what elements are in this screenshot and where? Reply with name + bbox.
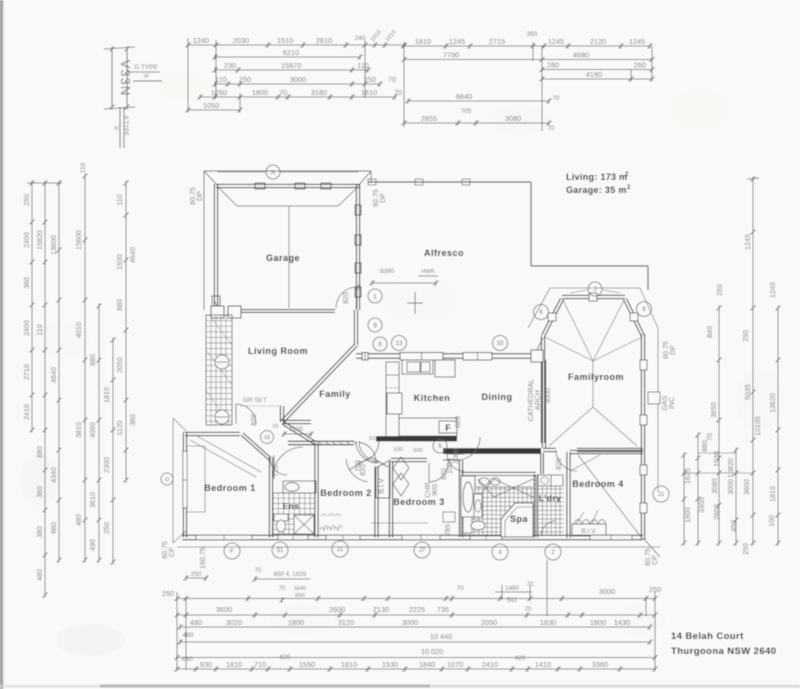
svg-text:1245: 1245 <box>769 282 777 298</box>
svg-text:230: 230 <box>224 61 236 70</box>
corridor thick wall east <box>443 449 541 454</box>
svg-text:13: 13 <box>396 341 403 347</box>
svg-text:70: 70 <box>394 88 402 97</box>
svg-text:2050: 2050 <box>481 618 497 627</box>
svg-text:10820: 10820 <box>727 458 735 478</box>
svg-text:700: 700 <box>354 460 362 472</box>
svg-text:J1: J1 <box>337 547 344 553</box>
svg-text:7790: 7790 <box>443 51 459 60</box>
south eave line <box>177 546 660 548</box>
bedroom1 robe diagonals <box>190 440 256 477</box>
svg-text:110: 110 <box>215 75 227 84</box>
svg-text:Dining: Dining <box>482 392 513 402</box>
svg-text:1240: 1240 <box>193 36 209 45</box>
svg-text:Ens: Ens <box>283 501 300 511</box>
svg-text:110: 110 <box>357 61 369 70</box>
ensuite vanity <box>283 481 316 493</box>
svg-text:3120: 3120 <box>338 618 354 627</box>
bathroom door arc <box>447 454 464 471</box>
svg-text:3650: 3650 <box>710 402 718 418</box>
svg-text:CP: CP <box>168 547 176 557</box>
svg-text:1600: 1600 <box>684 507 692 523</box>
svg-text:15: 15 <box>264 435 270 441</box>
svg-text:250: 250 <box>191 571 202 578</box>
circled tag 1 right of garage <box>368 289 382 303</box>
kitchen north wall with windows <box>356 357 531 359</box>
familyroom window piers <box>548 313 556 321</box>
svg-text:4640: 4640 <box>50 367 58 383</box>
svg-text:250: 250 <box>364 75 376 84</box>
scan noise patches <box>30 322 90 358</box>
svg-text:880: 880 <box>701 440 709 452</box>
svg-text:2600: 2600 <box>329 605 345 614</box>
svg-text:1810: 1810 <box>415 37 431 46</box>
svg-text:13620: 13620 <box>769 393 777 413</box>
shower cross marks <box>494 479 533 497</box>
svg-text:14 Belah Court: 14 Belah Court <box>671 631 744 642</box>
bottom dim row 4 10020 <box>180 641 650 643</box>
svg-text:2225: 2225 <box>409 605 425 614</box>
svg-text:542: 542 <box>507 598 518 604</box>
dining-bay connector pier <box>531 350 543 362</box>
svg-text:70: 70 <box>279 586 286 592</box>
svg-text:480: 480 <box>75 514 83 526</box>
svg-text:3600: 3600 <box>216 605 232 614</box>
svg-text:Kitchen: Kitchen <box>414 393 451 403</box>
svg-text:3080: 3080 <box>505 114 521 123</box>
svg-text:240: 240 <box>355 35 366 42</box>
spa platform <box>501 503 533 537</box>
svg-text:900: 900 <box>431 484 439 496</box>
BIV between bed2 bed3 <box>376 460 390 498</box>
bedroom4 ceiling diagonal <box>578 455 641 537</box>
bottom dim row 6 <box>177 668 655 670</box>
svg-text:2410: 2410 <box>482 660 498 669</box>
svg-text:2410: 2410 <box>23 404 31 420</box>
ensuite floor hatched <box>273 493 315 534</box>
living room east wall <box>353 310 355 345</box>
svg-text:Family: Family <box>319 389 351 399</box>
svg-text:3020: 3020 <box>226 618 242 627</box>
top dim row 5 <box>200 96 395 98</box>
svg-text:4340: 4340 <box>50 467 58 483</box>
bedroom3 leader line <box>371 522 428 524</box>
bedroom3 north wall <box>391 461 427 463</box>
corner diagonal SE <box>643 538 660 557</box>
scan bottom edge band <box>100 685 430 688</box>
svg-text:250: 250 <box>23 194 31 206</box>
svg-text:785: 785 <box>444 524 452 536</box>
svg-text:V33N: V33N <box>118 60 133 97</box>
svg-text:250: 250 <box>239 75 251 84</box>
right dim vertical lines <box>683 455 685 543</box>
bedroom2 corridor wall <box>288 444 354 446</box>
circled tag O west <box>161 473 173 485</box>
top dim row 3a right <box>542 69 652 71</box>
familyroom south wall <box>543 451 643 453</box>
svg-text:70: 70 <box>547 125 555 132</box>
svg-text:Living Room: Living Room <box>248 346 308 356</box>
left dim cross ticks <box>30 220 35 225</box>
svg-text:1030: 1030 <box>713 451 721 467</box>
garage internal door arc <box>356 287 358 308</box>
south wall window marks <box>196 535 252 540</box>
svg-text:1410: 1410 <box>535 660 551 669</box>
kitchen oven box <box>387 393 402 414</box>
svg-text:'A': 'A' <box>143 73 150 80</box>
svg-text:100: 100 <box>393 447 403 453</box>
svg-text:360: 360 <box>23 277 31 289</box>
svg-text:1050: 1050 <box>211 88 227 97</box>
svg-text:CP: CP <box>651 555 659 565</box>
svg-text:735: 735 <box>437 605 449 614</box>
svg-text:820: 820 <box>555 458 563 470</box>
svg-text:480: 480 <box>182 632 194 639</box>
svg-text:DP: DP <box>196 191 204 201</box>
svg-text:2600: 2600 <box>713 504 721 520</box>
svg-text:DP: DP <box>379 193 387 203</box>
svg-text:2855: 2855 <box>421 114 437 123</box>
top dim row 3b right 4180 <box>542 78 652 80</box>
circled tag 13 on kitchen wall <box>392 336 407 351</box>
svg-text:2400: 2400 <box>23 320 31 336</box>
svg-text:820: 820 <box>342 292 350 304</box>
top block vertical connectors <box>187 38 189 112</box>
svg-text:820: 820 <box>250 414 258 426</box>
bottom dim row 3 10440 <box>180 626 650 628</box>
bedroom4 north wall <box>570 453 643 455</box>
circled tag A top <box>266 165 280 179</box>
bedroom1 north wall <box>185 435 240 437</box>
svg-text:1635: 1635 <box>684 468 692 484</box>
garage south wall <box>241 311 335 313</box>
west eave line <box>172 418 174 543</box>
bottom block verticals <box>176 592 178 670</box>
svg-text:Bedroom 2: Bedroom 2 <box>320 488 372 498</box>
svg-text:10 440: 10 440 <box>430 632 452 641</box>
svg-text:15820: 15820 <box>36 230 44 250</box>
svg-text:250: 250 <box>103 522 111 534</box>
svg-text:31: 31 <box>277 548 284 554</box>
svg-text:B.I.V.: B.I.V. <box>581 528 596 535</box>
svg-text:5035: 5035 <box>744 384 752 400</box>
svg-text:F: F <box>230 549 234 555</box>
svg-text:9 TYPE: 9 TYPE <box>122 116 128 137</box>
svg-text:250: 250 <box>162 589 174 598</box>
svg-text:360: 360 <box>129 414 137 426</box>
9 TYPE A marker below <box>119 107 121 148</box>
alfresco north boundary <box>368 181 531 183</box>
circled tag 6 left bay <box>534 305 549 320</box>
svg-text:1050: 1050 <box>203 101 219 110</box>
bedroom2 east wall <box>374 466 376 538</box>
svg-text:2715: 2715 <box>489 37 505 46</box>
svg-text:480: 480 <box>181 656 193 663</box>
svg-text:Garage: Garage <box>266 253 300 263</box>
ensuite WC <box>274 514 288 521</box>
svg-text:33: 33 <box>497 341 504 347</box>
svg-text:110: 110 <box>116 194 124 205</box>
svg-text:4050: 4050 <box>89 422 97 438</box>
svg-text:1120: 1120 <box>116 420 124 435</box>
svg-text:1810: 1810 <box>226 660 242 669</box>
svg-text:860: 860 <box>50 522 58 534</box>
garage east wall <box>355 184 357 310</box>
svg-text:100: 100 <box>768 515 776 527</box>
hall diagonal to bedroom1 <box>241 435 269 460</box>
svg-text:1245: 1245 <box>548 37 564 46</box>
svg-text:70: 70 <box>706 433 714 441</box>
svg-text:F: F <box>445 423 451 433</box>
svg-text:450 4. UOS: 450 4. UOS <box>274 571 307 578</box>
alfresco outer corner line <box>531 265 648 267</box>
garage south wall piers <box>211 306 224 318</box>
svg-text:1510: 1510 <box>277 36 293 45</box>
svg-text:480: 480 <box>190 618 202 627</box>
svg-text:620: 620 <box>280 654 291 661</box>
svg-text:1840: 1840 <box>419 660 435 669</box>
svg-text:J7: J7 <box>419 548 426 554</box>
dining east wall <box>541 360 543 448</box>
bedroom3 door arc <box>429 463 448 482</box>
kitchen top bench and sink <box>402 360 433 374</box>
svg-text:10105: 10105 <box>754 416 762 436</box>
right dim cross ticks <box>717 358 722 363</box>
svg-text:2400: 2400 <box>23 232 31 248</box>
circled tag 5 <box>433 439 447 453</box>
svg-text:2300: 2300 <box>103 457 111 473</box>
svg-text:70: 70 <box>272 424 278 430</box>
door arc dining to hall <box>457 437 480 460</box>
bedroom3 east wall <box>458 460 460 538</box>
svg-text:3000: 3000 <box>599 587 615 596</box>
svg-text:3600: 3600 <box>743 479 751 495</box>
svg-text:880: 880 <box>116 299 124 311</box>
svg-text:1480: 1480 <box>505 585 520 592</box>
svg-text:160.75: 160.75 <box>199 547 207 569</box>
svg-text:Familyroom: Familyroom <box>568 372 624 382</box>
top dim row 7 2855 705 3080 <box>404 122 549 124</box>
ldry door arc <box>541 521 556 536</box>
svg-text:15870: 15870 <box>281 61 301 70</box>
door arc living to hall <box>236 404 256 424</box>
svg-text:Bedroom 1: Bedroom 1 <box>204 483 256 493</box>
fridge box F <box>439 421 457 433</box>
bed2 robe clothes squiggles <box>320 514 328 530</box>
svg-text:3180: 3180 <box>311 88 327 97</box>
familyroom bay north wall <box>562 298 625 300</box>
svg-text:B.I.V: B.I.V <box>378 478 386 494</box>
svg-text:820: 820 <box>454 416 462 428</box>
alfresco east boundary <box>530 182 532 266</box>
svg-text:ARCH: ARCH <box>534 390 542 410</box>
svg-text:480: 480 <box>36 569 44 581</box>
bottom dim row 1 <box>177 598 655 600</box>
svg-text:4640: 4640 <box>129 247 137 263</box>
svg-text:3610: 3610 <box>89 492 97 508</box>
eave outline around bay <box>528 288 550 328</box>
BIV hanger chevrons <box>393 457 409 480</box>
bathroom vanity basins <box>476 476 533 487</box>
familyroom bay east diagonal <box>624 300 642 337</box>
svg-text:Spa: Spa <box>510 514 528 524</box>
familyroom west wall <box>540 336 542 443</box>
svg-text:3000: 3000 <box>290 75 306 84</box>
kitchen pantry column <box>386 362 399 437</box>
bedroom1 robe inner line <box>204 446 206 512</box>
svg-text:490: 490 <box>89 539 97 551</box>
circled tag 15 <box>261 431 274 444</box>
svg-text:70: 70 <box>255 568 262 574</box>
bathroom north wall <box>461 475 536 477</box>
svg-text:8380: 8380 <box>380 268 395 275</box>
svg-text:6640: 6640 <box>456 92 472 101</box>
top dim row 4 <box>215 83 380 85</box>
svg-text:10: 10 <box>369 436 375 442</box>
hall double door arcs family <box>358 441 379 462</box>
corridor thick wall west <box>376 437 457 442</box>
svg-text:1245: 1245 <box>744 234 752 250</box>
svg-text:380: 380 <box>36 526 44 538</box>
bedroom4 BIV robe <box>572 524 606 536</box>
svg-text:1070: 1070 <box>447 660 463 669</box>
svg-text:15600: 15600 <box>75 230 83 250</box>
bathroom tiled floor <box>461 476 536 536</box>
svg-text:Bedroom 3: Bedroom 3 <box>393 497 445 507</box>
svg-text:1810: 1810 <box>769 486 777 502</box>
svg-text:Bedroom 4: Bedroom 4 <box>572 479 624 489</box>
svg-text:2050: 2050 <box>116 357 124 373</box>
circled tags below south wall <box>224 543 240 559</box>
scan left edge shadow <box>0 0 3 689</box>
svg-text:GR SET: GR SET <box>243 397 267 404</box>
svg-text:880: 880 <box>36 446 44 458</box>
top dim row 3 left <box>215 69 368 71</box>
bedroom1-ens wall <box>268 457 270 538</box>
svg-text:1610: 1610 <box>361 88 377 97</box>
bedroom2 door arc <box>346 459 367 482</box>
svg-text:360: 360 <box>36 486 44 498</box>
familyroom east wall <box>640 334 642 540</box>
svg-text:250: 250 <box>742 330 750 342</box>
kitchen south bench <box>399 418 457 436</box>
south outer wall <box>182 539 643 541</box>
hall west wall <box>282 424 315 445</box>
circled tag 8 <box>373 337 387 351</box>
svg-text:70: 70 <box>279 88 287 97</box>
svg-text:1: 1 <box>373 293 377 300</box>
top dim row 1 right <box>404 45 650 47</box>
svg-text:70: 70 <box>552 95 560 102</box>
svg-text:840: 840 <box>706 326 714 338</box>
svg-text:1810: 1810 <box>341 660 357 669</box>
svg-text:Garage: 35 m: Garage: 35 m <box>566 185 627 195</box>
svg-text:1800: 1800 <box>288 618 304 627</box>
circled tag Q right of garage <box>368 318 382 332</box>
bedroom3 west wall <box>388 462 390 538</box>
top dim row 2 left 6210 <box>215 56 360 58</box>
svg-text:1530: 1530 <box>382 660 398 669</box>
living room feature wall hatched <box>206 315 232 425</box>
lobby west wall <box>540 453 542 474</box>
bath tub <box>461 476 475 517</box>
svg-text:3360: 3360 <box>592 660 608 669</box>
bedroom3 785 note <box>443 512 455 522</box>
svg-text:G TYPE: G TYPE <box>134 64 158 71</box>
svg-text:1500: 1500 <box>116 254 124 270</box>
svg-text:1245: 1245 <box>629 37 645 46</box>
svg-text:710: 710 <box>254 660 266 669</box>
svg-text:Thurgoona NSW 2640: Thurgoona NSW 2640 <box>671 646 776 657</box>
garage centre line <box>288 206 290 308</box>
svg-text:J1: J1 <box>658 492 665 498</box>
svg-text:1830: 1830 <box>540 618 556 627</box>
garage wall tick <box>356 285 361 290</box>
svg-text:4010: 4010 <box>75 322 83 338</box>
circled tag J1 right <box>653 486 669 502</box>
svg-text:260: 260 <box>634 61 646 70</box>
garage gable ceiling lines <box>218 187 237 206</box>
gas meter box on east wall <box>648 392 660 404</box>
svg-text:110: 110 <box>80 162 87 173</box>
right dim connector rows <box>698 452 736 454</box>
ensuite shower box <box>294 515 314 534</box>
bottom dim row 5 <box>177 657 655 659</box>
svg-text:Alfresco: Alfresco <box>424 248 464 258</box>
svg-text:2030: 2030 <box>233 36 249 45</box>
bottom dim row 2 <box>177 614 655 616</box>
familyroom door opening <box>556 447 577 454</box>
svg-text:70: 70 <box>388 75 396 84</box>
svg-text:880: 880 <box>89 354 97 366</box>
svg-text:INC: INC <box>668 397 676 409</box>
bedroom4 west wall <box>566 452 568 538</box>
svg-text:1800: 1800 <box>252 88 268 97</box>
svg-text:10 020: 10 020 <box>421 647 443 656</box>
svg-text:450: 450 <box>730 520 738 532</box>
left dim top connector <box>27 182 62 184</box>
ldry appliances <box>538 475 551 486</box>
alfresco hose tap mark <box>414 292 416 314</box>
bedroom1 door arc <box>273 447 303 477</box>
svg-text:70: 70 <box>456 585 464 592</box>
V33N section marker lines <box>111 49 113 107</box>
svg-text:3000: 3000 <box>544 388 552 404</box>
circled tag 6 right bay <box>637 302 652 317</box>
svg-text:1800: 1800 <box>590 618 606 627</box>
svg-text:13600: 13600 <box>50 235 58 255</box>
svg-text:2610: 2610 <box>316 36 332 45</box>
top dim row 1 left <box>188 44 404 46</box>
svg-text:Living: 173 m: Living: 173 m <box>566 172 627 182</box>
garage west wall <box>213 184 215 310</box>
garage eave outline <box>204 170 371 172</box>
svg-text:6210: 6210 <box>283 48 299 57</box>
svg-text:3810: 3810 <box>75 422 83 438</box>
svg-text:70: 70 <box>524 606 532 613</box>
top dim row 6 1050 <box>188 109 240 111</box>
left dim vertical lines <box>31 183 33 430</box>
ens door arc <box>270 458 287 475</box>
top dim row 2 mid-right <box>404 59 652 61</box>
svg-text:'A': 'A' <box>112 125 118 131</box>
ldry tiled floor <box>538 479 564 481</box>
svg-text:4680: 4680 <box>573 51 589 60</box>
svg-text:1245: 1245 <box>449 37 465 46</box>
svg-text:600: 600 <box>413 448 423 454</box>
svg-text:9: 9 <box>373 322 377 329</box>
circled tag J top bay <box>588 282 602 296</box>
